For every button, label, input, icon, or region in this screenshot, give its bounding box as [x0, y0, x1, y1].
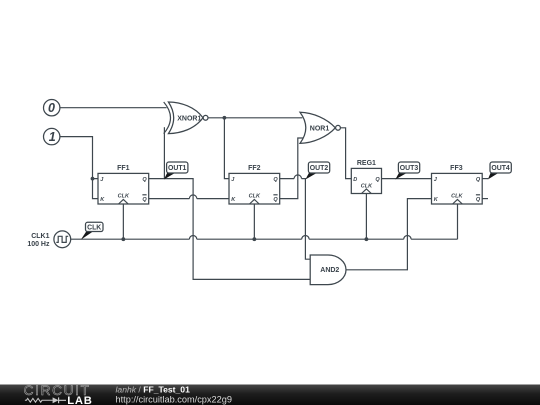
- wire FF2 Qbar to NOR1 bottom input: [280, 138, 303, 199]
- svg-text:0: 0: [48, 101, 55, 115]
- constant source 0: [44, 100, 60, 116]
- wire FF1 Qbar to FF2 K with hop: [149, 195, 229, 199]
- svg-text:FF1: FF1: [117, 165, 130, 172]
- svg-text:OUT4: OUT4: [491, 165, 510, 172]
- flag OUT3: [395, 162, 419, 180]
- svg-text:XNOR1: XNOR1: [177, 115, 201, 122]
- svg-text:CLK: CLK: [451, 194, 463, 200]
- svg-text:FF3: FF3: [450, 165, 463, 172]
- wire FF2 CLK pin: [253, 204, 255, 239]
- footer text line 2 url: [116, 395, 232, 405]
- flip-flop REG1: [351, 160, 381, 193]
- node junction REG1 CLK: [365, 237, 369, 241]
- node junction at FF1 J: [91, 177, 95, 181]
- CircuitLab logo resistor zigzag and diode: [25, 397, 66, 403]
- svg-text:100 Hz: 100 Hz: [27, 241, 50, 248]
- flip-flop FF2: [229, 165, 280, 204]
- svg-text:http://circuitlab.com/cpx22g9: http://circuitlab.com/cpx22g9: [116, 395, 232, 405]
- wire 0 to XNOR1 top input: [60, 107, 167, 109]
- wire 1 to FF1 J and K: [60, 137, 98, 199]
- flag CLK: [81, 222, 103, 240]
- wire FF3 Qbar stub: [482, 198, 488, 200]
- wire node to FF2 J: [224, 118, 229, 179]
- svg-text:LAB: LAB: [67, 395, 92, 405]
- svg-text:Q: Q: [273, 177, 278, 183]
- footer bar: [0, 385, 540, 405]
- flag OUT1: [164, 162, 188, 180]
- svg-text:lanhk / FF_Test_01: lanhk / FF_Test_01: [116, 385, 191, 395]
- wire XNOR1 bottom input vertical: [163, 127, 165, 178]
- flag OUT2: [305, 162, 329, 180]
- flip-flop FF1: [98, 165, 149, 204]
- svg-text:AND2: AND2: [320, 267, 339, 274]
- XNOR1 gate: [164, 102, 208, 134]
- wire FF1 Q to AND2 bottom input: [149, 179, 311, 280]
- svg-text:Q: Q: [476, 177, 481, 183]
- svg-text:1: 1: [49, 130, 56, 144]
- svg-text:Q: Q: [375, 177, 380, 183]
- wire XNOR1 output to NOR1 top input: [208, 117, 302, 119]
- constant source 1: [44, 128, 60, 144]
- svg-text:OUT1: OUT1: [168, 165, 187, 172]
- svg-text:Q: Q: [476, 197, 481, 203]
- svg-text:FF2: FF2: [248, 165, 261, 172]
- svg-text:NOR1: NOR1: [310, 125, 330, 132]
- wire REG1 Q to FF3 J: [382, 178, 432, 180]
- svg-text:CLK: CLK: [118, 194, 130, 200]
- svg-text:CLK: CLK: [87, 225, 101, 232]
- svg-text:Q: Q: [142, 177, 147, 183]
- svg-text:Q: Q: [273, 197, 278, 203]
- footer text line 1 lanhk / FF_Test_01: [116, 385, 191, 395]
- node junction on XNOR1 output: [223, 116, 227, 120]
- flip-flop FF3: [432, 165, 483, 204]
- svg-text:OUT3: OUT3: [400, 165, 419, 172]
- wire REG1 CLK pin: [365, 194, 367, 240]
- clock source CLK1 100 Hz: [27, 231, 70, 248]
- svg-text:CLK: CLK: [249, 194, 261, 200]
- AND2 gate: [310, 255, 346, 285]
- wire clock bus with hops: [71, 204, 458, 239]
- svg-text:OUT2: OUT2: [310, 165, 329, 172]
- flag OUT4: [488, 162, 512, 180]
- svg-text:REG1: REG1: [357, 160, 376, 167]
- wire FF1 CLK pin: [122, 204, 124, 239]
- wire FF2 Q to AND2 top input with hop: [280, 175, 311, 259]
- node junction FF1 CLK: [121, 237, 125, 241]
- wire AND2 output to FF3 K: [346, 199, 432, 270]
- svg-text:Q: Q: [142, 197, 147, 203]
- svg-text:CLK1: CLK1: [31, 233, 49, 240]
- CircuitLab logo text CIRCUIT: [24, 383, 91, 398]
- CircuitLab logo text LAB: [67, 395, 92, 405]
- wire FF3 Q stub: [482, 178, 488, 180]
- node junction FF2 CLK: [252, 237, 256, 241]
- wire NOR1 output to REG1 D: [340, 128, 351, 179]
- svg-text:D: D: [353, 177, 357, 183]
- svg-text:CLK: CLK: [361, 183, 373, 189]
- NOR1 gate: [300, 112, 340, 143]
